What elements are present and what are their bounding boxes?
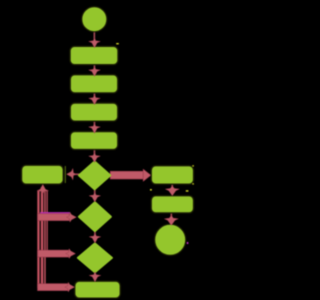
arrow into D3 (right): [66, 249, 76, 259]
arrow into L1 (left): [67, 168, 77, 180]
process box P5: [75, 281, 121, 298]
wire P2 to P3: [94, 92, 96, 97]
arrow into D2: [89, 192, 101, 202]
arrow into P3: [89, 95, 101, 105]
thick wire D1 to R1: [110, 171, 144, 179]
wire P3 to P4: [94, 121, 96, 126]
right box R1: [151, 166, 193, 185]
wire R2 to end-circle: [171, 213, 173, 218]
arrow into end-circle: [164, 215, 178, 225]
arrow into P1: [89, 38, 101, 48]
wire D1 to L1 (short): [75, 173, 80, 175]
right box R2: [151, 196, 193, 213]
end circle: [155, 224, 186, 255]
arrow into R1 (big right): [143, 169, 151, 181]
arrow up into L1: [37, 184, 49, 194]
wire P4 to D1: [94, 149, 96, 156]
decision diamond D3: [78, 243, 112, 272]
arrow into D1: [89, 153, 101, 163]
arrow into P4: [89, 123, 101, 133]
process box P4: [70, 132, 118, 150]
left box L1: [22, 165, 64, 184]
start circle: [82, 7, 107, 32]
speck below R1 right: [186, 190, 189, 192]
wire D3 to P5: [94, 272, 96, 276]
arrow into P5 (right): [65, 282, 75, 292]
arrow into D2 (right): [67, 212, 77, 222]
wire D2 to D3: [94, 231, 96, 237]
wire R1 to R2: [171, 184, 173, 189]
speck below R1 left: [150, 189, 152, 191]
speck L1 right: [65, 166, 66, 183]
arrow into P2: [89, 67, 101, 77]
wire start-circle to P1: [94, 31, 96, 40]
speck end-circle right: [187, 242, 189, 244]
process box P3: [70, 103, 118, 121]
trunk wire 3: [44, 191, 46, 288]
speck P1 corner: [116, 43, 119, 44]
branch wire to D3: [38, 250, 69, 257]
speck R1 top-right: [192, 165, 194, 166]
speck R1 bottom-right: [192, 183, 194, 184]
arrow into D3: [89, 233, 101, 243]
decision diamond D2: [79, 202, 111, 231]
branch wire to P5: [38, 284, 69, 291]
arrow into P5: [89, 272, 101, 282]
wire P1 to P2: [94, 65, 96, 69]
process box P2: [70, 75, 118, 93]
trunk wire 2: [41, 187, 44, 291]
branch wire to D2: [38, 214, 70, 221]
decision diamond D1: [79, 162, 110, 190]
process box P1: [70, 46, 118, 64]
magenta wire on branch to D2: [40, 212, 70, 213]
wire D1 to D2: [94, 189, 96, 195]
trunk wire 1: [37, 191, 39, 289]
arrow into R2: [165, 186, 179, 196]
trunk wire 4: [46, 191, 47, 253]
